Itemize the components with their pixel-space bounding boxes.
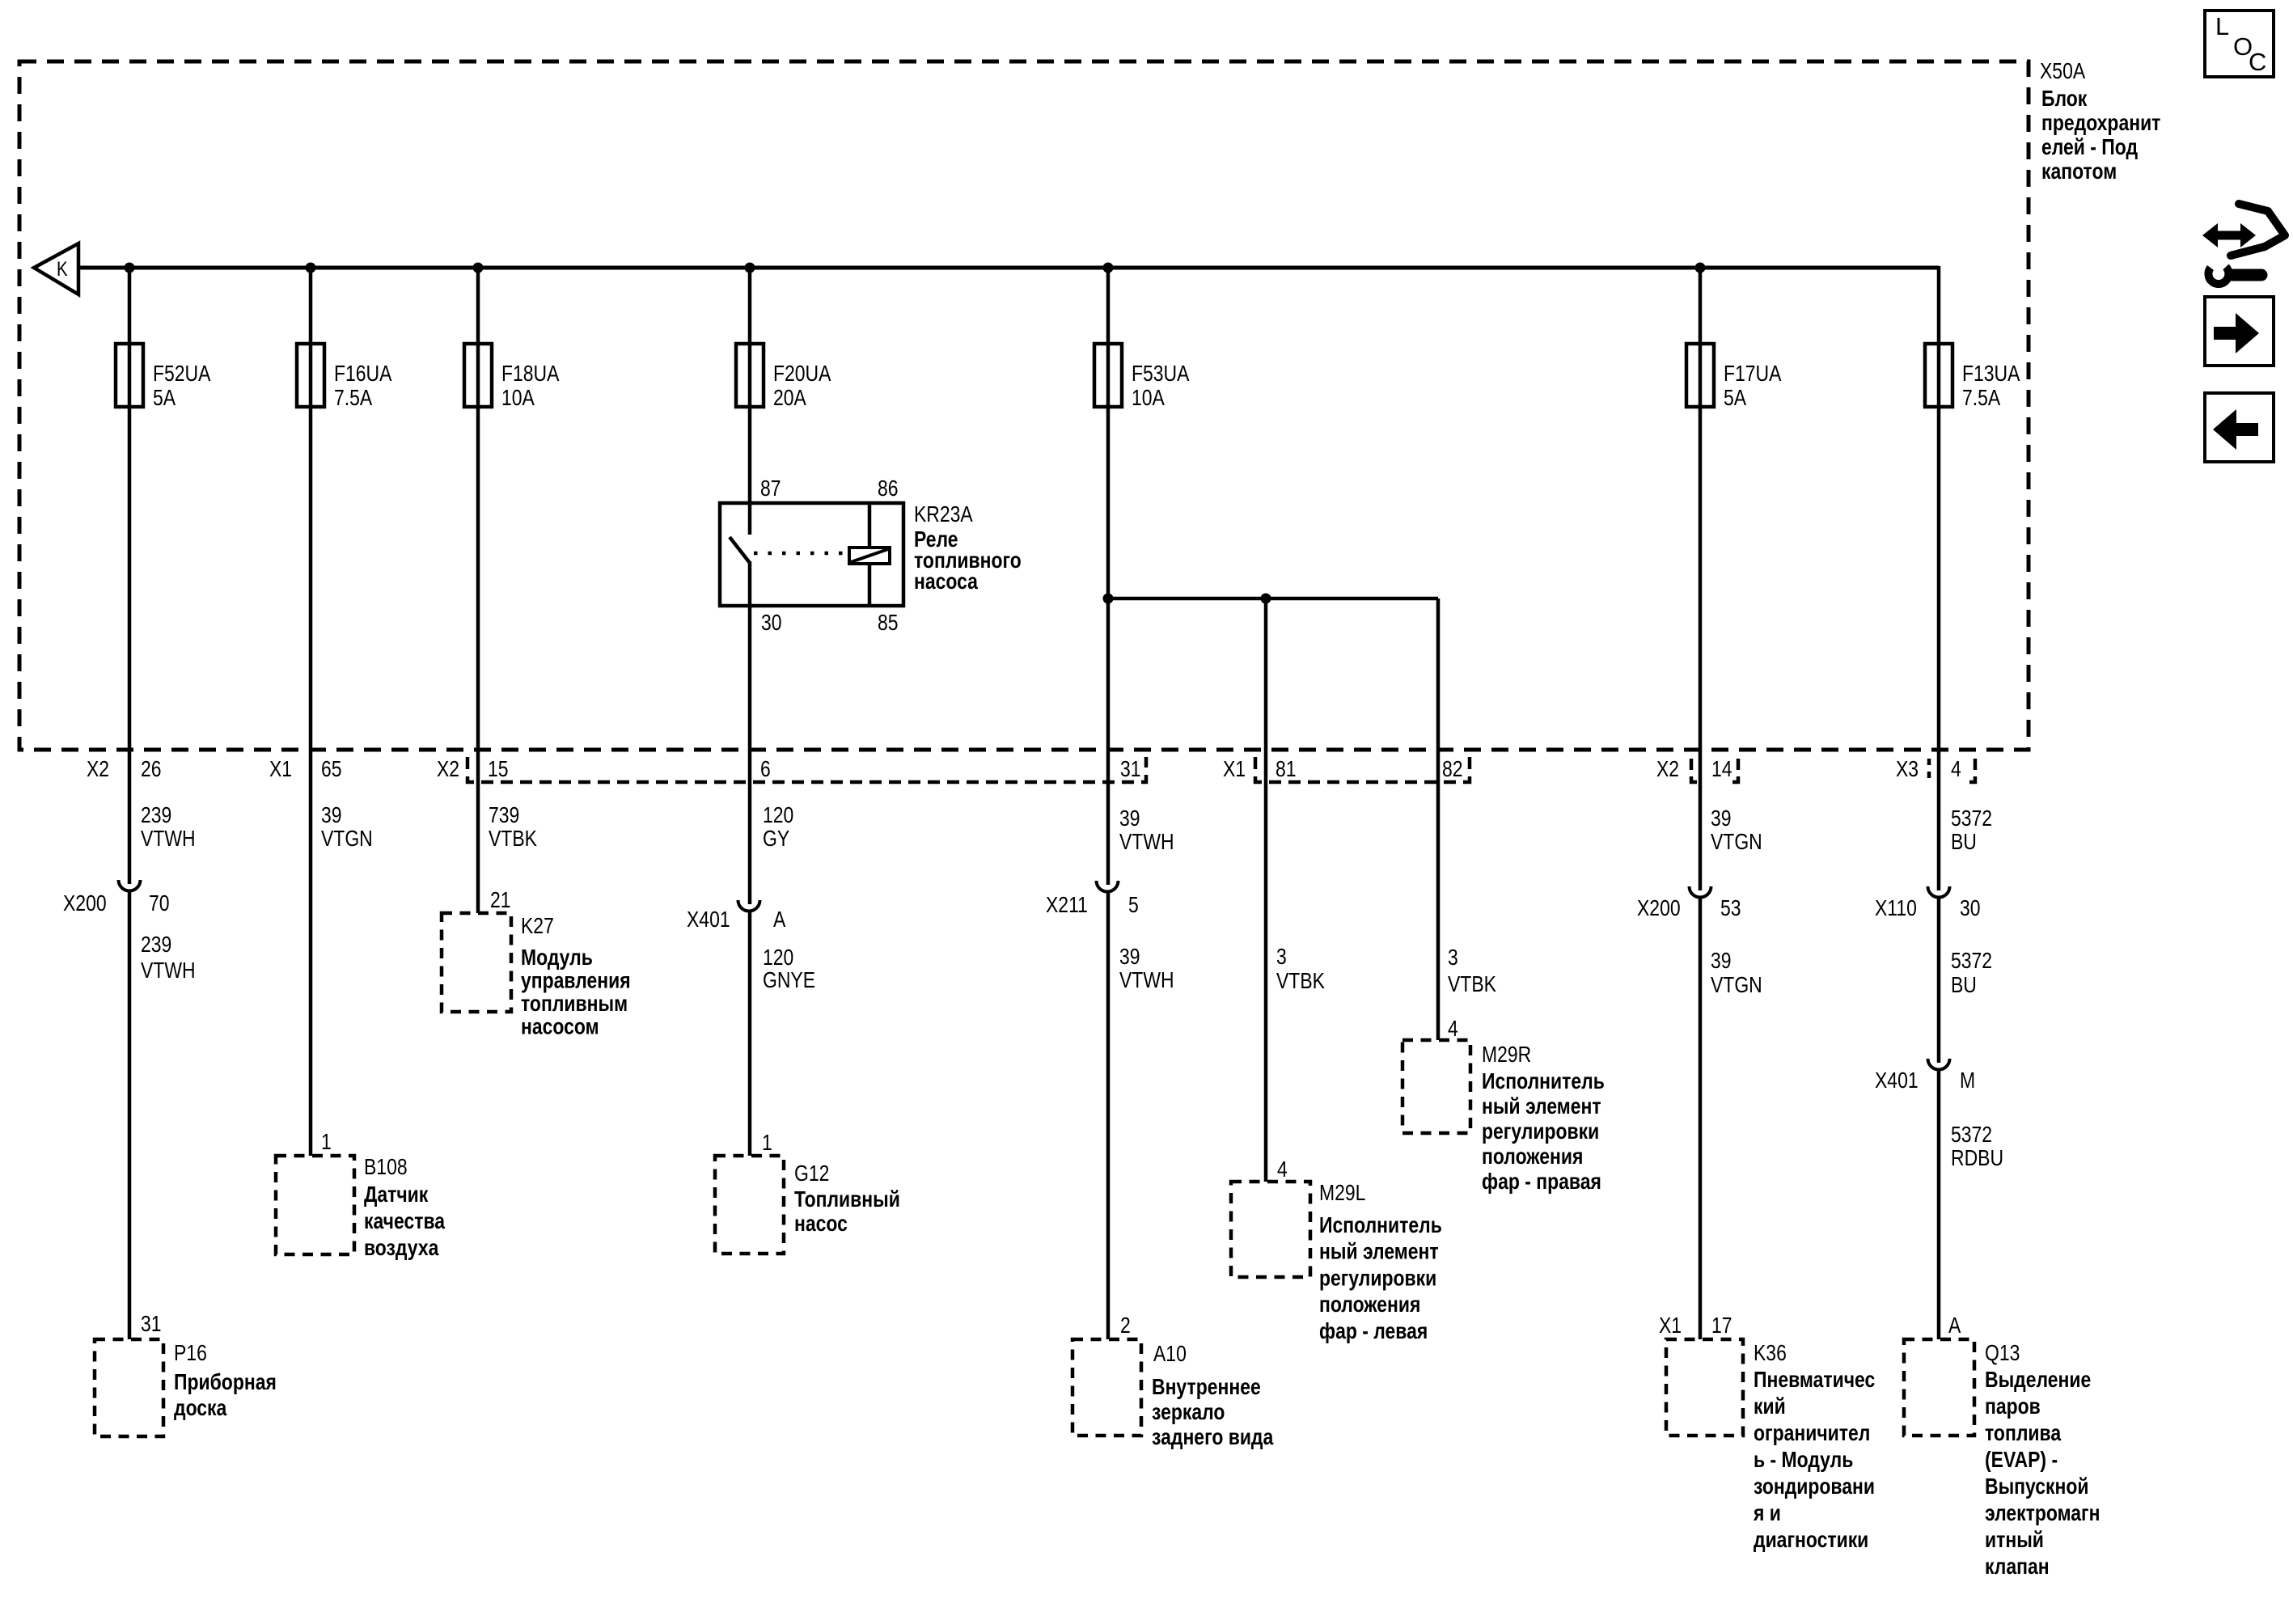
G12 name fuel pump <box>794 1187 900 1237</box>
arrow K circuit continuation <box>34 243 78 294</box>
svg-text:20A: 20A <box>773 386 807 411</box>
svg-text:87: 87 <box>760 476 781 501</box>
rerouted-circuit wrench icon <box>2202 204 2285 284</box>
svg-text:1: 1 <box>321 1130 332 1155</box>
svg-text:итный: итный <box>1985 1528 2044 1553</box>
svg-text:239: 239 <box>141 933 171 958</box>
svg-text:7.5A: 7.5A <box>1962 386 2001 411</box>
svg-text:5A: 5A <box>153 386 176 411</box>
wire label 39 VTWH below X211 <box>1119 945 1174 993</box>
svg-text:31: 31 <box>141 1312 162 1337</box>
svg-text:X200: X200 <box>63 891 107 916</box>
svg-text:Внутреннее: Внутреннее <box>1152 1375 1261 1400</box>
fuse F13UA <box>1925 344 1952 407</box>
svg-text:5: 5 <box>1128 893 1139 918</box>
svg-text:53: 53 <box>1720 896 1741 921</box>
wire F20UA branch to relay pin 87 <box>748 268 752 503</box>
svg-text:диагностики: диагностики <box>1754 1528 1868 1553</box>
component B108 box <box>276 1156 354 1254</box>
svg-text:елей - Под: елей - Под <box>2041 135 2138 160</box>
component Q13 box <box>1904 1339 1974 1436</box>
svg-text:Приборная: Приборная <box>174 1370 277 1395</box>
wire bus from arrow K to F13UA branch <box>78 266 1939 270</box>
svg-text:X1: X1 <box>1223 757 1246 782</box>
Q13 name EVAP emission vent solenoid valve <box>1985 1368 2100 1580</box>
svg-text:X2: X2 <box>1656 757 1679 782</box>
svg-text:управления: управления <box>521 968 631 993</box>
svg-text:39: 39 <box>1711 806 1732 831</box>
junction F53UA/branch <box>1103 594 1114 604</box>
svg-text:насос: насос <box>794 1212 848 1237</box>
wire F17UA branch down to X200-53 <box>1699 268 1703 890</box>
wire label 120 GNYE below X401 <box>763 945 815 993</box>
svg-text:Пневматичес: Пневматичес <box>1754 1368 1875 1393</box>
svg-text:клапан: клапан <box>1985 1554 2050 1580</box>
junction bus/F16UA <box>306 263 316 273</box>
svg-text:81: 81 <box>1276 757 1297 782</box>
svg-text:G12: G12 <box>794 1161 829 1186</box>
component G12 box <box>715 1156 784 1254</box>
wire label 3 VTBK left <box>1276 945 1325 994</box>
wire label 5372 RDBU below X401-M <box>1951 1123 2003 1171</box>
wire label 5372 BU below X110 <box>1951 949 1992 998</box>
svg-text:5A: 5A <box>1724 386 1747 411</box>
label F18UA 10A <box>501 362 560 411</box>
svg-text:BU: BU <box>1951 973 1977 998</box>
connector X211 pin 5 symbol <box>1097 881 1119 892</box>
relay KR23A box <box>720 503 903 606</box>
fuse F20UA <box>736 344 764 407</box>
svg-text:C: C <box>2249 48 2266 76</box>
svg-text:X50A: X50A <box>2040 59 2086 84</box>
fuse F18UA <box>464 344 492 407</box>
K27 name fuel pump control module <box>521 945 631 1039</box>
wire label 5372 BU <box>1951 806 1992 855</box>
svg-text:26: 26 <box>141 757 162 782</box>
label F53UA 10A <box>1132 362 1190 411</box>
svg-text:39: 39 <box>1119 945 1140 970</box>
svg-text:M29R: M29R <box>1482 1042 1531 1068</box>
svg-text:5372: 5372 <box>1951 949 1992 974</box>
wire label 39 VTGN right <box>1711 806 1762 855</box>
svg-text:F18UA: F18UA <box>501 362 560 387</box>
svg-text:F13UA: F13UA <box>1962 362 2020 387</box>
svg-text:85: 85 <box>878 611 899 636</box>
svg-text:X401: X401 <box>1875 1068 1919 1093</box>
svg-text:X211: X211 <box>1046 893 1088 918</box>
svg-text:VTWH: VTWH <box>141 827 196 852</box>
wire 239 VTWH down to P16 <box>128 891 132 1339</box>
svg-text:заднего вида: заднего вида <box>1152 1425 1274 1450</box>
svg-text:Выделение: Выделение <box>1985 1368 2091 1393</box>
svg-text:65: 65 <box>321 757 342 782</box>
svg-text:86: 86 <box>878 476 899 501</box>
wire label 239 VTWH <box>141 803 196 852</box>
svg-text:A: A <box>773 907 786 933</box>
svg-text:Блок: Блок <box>2041 87 2087 112</box>
X50A fuse block name <box>2041 87 2160 184</box>
svg-text:70: 70 <box>149 891 170 916</box>
svg-text:4: 4 <box>1448 1017 1458 1042</box>
svg-text:X1: X1 <box>1659 1313 1682 1339</box>
svg-text:82: 82 <box>1442 757 1463 782</box>
svg-text:Исполнитель: Исполнитель <box>1482 1069 1605 1094</box>
K36 name pneumatic suspension module <box>1753 1368 1875 1553</box>
svg-text:качества: качества <box>364 1209 446 1234</box>
connector X1 bracket pins 81-82 <box>1255 757 1470 782</box>
wire 39 VTGN down to K36 <box>1699 898 1703 1339</box>
svg-text:насосом: насосом <box>521 1014 599 1039</box>
svg-text:положения: положения <box>1319 1292 1420 1317</box>
component M29R box <box>1402 1040 1470 1133</box>
svg-text:1: 1 <box>762 1131 772 1156</box>
svg-text:4: 4 <box>1277 1157 1288 1182</box>
wire label 39 VTGN <box>321 803 373 852</box>
fuse block X50A dashed outline <box>19 61 2029 750</box>
fuse F17UA <box>1686 344 1714 407</box>
svg-text:6: 6 <box>760 757 771 782</box>
connector X200 pin 53 symbol <box>1690 886 1711 898</box>
junction bus/F18UA <box>473 263 484 273</box>
svg-text:зондировани: зондировани <box>1754 1474 1875 1499</box>
wire F16UA branch down to B108 <box>309 268 313 1156</box>
svg-text:BU: BU <box>1951 830 1977 855</box>
A10 name inside rear view mirror <box>1152 1375 1274 1450</box>
svg-text:239: 239 <box>141 803 171 828</box>
wire M29R drop <box>1436 598 1441 1040</box>
svg-text:3: 3 <box>1448 945 1458 971</box>
svg-text:VTGN: VTGN <box>321 827 373 852</box>
svg-text:кий: кий <box>1754 1394 1786 1419</box>
svg-text:A: A <box>1948 1313 1961 1339</box>
svg-text:21: 21 <box>490 888 511 913</box>
svg-text:B108: B108 <box>364 1155 408 1180</box>
relay KR23A name <box>914 527 1022 594</box>
backward arrow icon <box>2205 393 2274 462</box>
svg-text:5372: 5372 <box>1951 1123 1992 1148</box>
svg-text:14: 14 <box>1711 757 1732 782</box>
svg-text:положения: положения <box>1482 1144 1583 1169</box>
relay KR23A actuation dotted link <box>754 552 846 556</box>
svg-text:F20UA: F20UA <box>773 362 831 387</box>
svg-text:Исполнитель: Исполнитель <box>1319 1213 1442 1238</box>
svg-text:зеркало: зеркало <box>1152 1400 1225 1425</box>
svg-text:регулировки: регулировки <box>1482 1119 1599 1144</box>
fuse F52UA <box>116 344 143 407</box>
label F20UA 20A <box>773 362 831 411</box>
svg-text:топливным: топливным <box>521 992 628 1017</box>
svg-text:39: 39 <box>1119 806 1140 831</box>
wire F18UA branch down to K27 <box>476 268 480 913</box>
connector X401 pin A symbol <box>738 900 760 911</box>
svg-text:10A: 10A <box>501 386 535 411</box>
fuse F16UA <box>297 344 324 407</box>
svg-text:X110: X110 <box>1875 896 1917 921</box>
relay KR23A switch contact <box>730 503 750 606</box>
connector X200 pin 70 symbol <box>119 880 141 891</box>
label F16UA 7.5A <box>334 362 392 411</box>
svg-text:VTBK: VTBK <box>1448 972 1496 997</box>
svg-text:ный элемент: ный элемент <box>1482 1094 1601 1119</box>
svg-text:VTBK: VTBK <box>1276 969 1325 994</box>
svg-text:F17UA: F17UA <box>1724 362 1782 387</box>
svg-text:GNYE: GNYE <box>763 968 815 993</box>
svg-text:17: 17 <box>1711 1313 1732 1339</box>
svg-text:VTGN: VTGN <box>1711 830 1762 855</box>
svg-text:VTWH: VTWH <box>1119 830 1174 855</box>
svg-text:(EVAP) -: (EVAP) - <box>1985 1448 2058 1473</box>
connector X110 pin 30 symbol <box>1928 886 1950 898</box>
svg-text:VTGN: VTGN <box>1711 973 1762 998</box>
svg-text:F52UA: F52UA <box>153 362 211 387</box>
svg-text:электромагн: электромагн <box>1985 1501 2100 1526</box>
wire 39 VTWH down to A10 <box>1106 892 1111 1339</box>
svg-text:7.5A: 7.5A <box>334 386 373 411</box>
svg-text:VTWH: VTWH <box>1119 968 1174 993</box>
connector X2 bracket pins 15-6-31 <box>467 757 1146 782</box>
svg-text:предохранит: предохранит <box>2041 111 2160 136</box>
junction bus/F17UA <box>1695 263 1706 273</box>
svg-text:насоса: насоса <box>914 569 979 594</box>
label F17UA 5A <box>1724 362 1782 411</box>
wire 120 GNYE down to G12 <box>748 911 752 1156</box>
svg-text:K: K <box>57 257 68 280</box>
connector X3 bracket pin 4 <box>1929 759 1975 782</box>
svg-text:739: 739 <box>489 803 519 828</box>
wire relay pin30 down to X401-A <box>748 606 752 904</box>
svg-text:X401: X401 <box>687 907 730 933</box>
wire label 739 VTBK <box>489 803 537 852</box>
svg-text:X3: X3 <box>1896 757 1919 782</box>
relay KR23A coil <box>849 503 890 606</box>
component P16 box <box>95 1339 163 1436</box>
M29L name headlamp leveling actuator left <box>1319 1213 1442 1343</box>
svg-text:F16UA: F16UA <box>334 362 392 387</box>
svg-text:воздуха: воздуха <box>364 1236 439 1261</box>
wire label 39 VTGN below X200-53 <box>1711 949 1762 998</box>
label F52UA 5A <box>153 362 211 411</box>
component M29L box <box>1231 1182 1310 1277</box>
svg-text:фар - левая: фар - левая <box>1319 1319 1428 1344</box>
svg-text:10A: 10A <box>1132 386 1166 411</box>
svg-text:K36: K36 <box>1754 1341 1787 1366</box>
svg-text:3: 3 <box>1276 945 1287 970</box>
label F13UA 7.5A <box>1962 362 2020 411</box>
svg-text:Топливный: Топливный <box>794 1187 900 1212</box>
svg-text:X200: X200 <box>1637 896 1681 921</box>
svg-text:KR23A: KR23A <box>914 502 974 527</box>
svg-text:топлива: топлива <box>1985 1421 2062 1446</box>
component A10 box <box>1072 1339 1141 1436</box>
connector X2 bracket pin 14 <box>1691 759 1738 782</box>
wire 5372 RDBU down to Q13 <box>1937 1070 1941 1339</box>
svg-text:P16: P16 <box>174 1341 207 1366</box>
wire label 39 VTWH <box>1119 806 1174 855</box>
svg-text:ный элемент: ный элемент <box>1319 1240 1439 1265</box>
svg-text:30: 30 <box>1960 896 1981 921</box>
svg-text:31: 31 <box>1120 757 1141 782</box>
svg-text:F53UA: F53UA <box>1132 362 1190 387</box>
svg-text:Q13: Q13 <box>1985 1341 2020 1366</box>
B108 name air quality sensor <box>364 1182 446 1261</box>
svg-text:5372: 5372 <box>1951 806 1992 831</box>
P16 name instrument panel <box>174 1370 277 1421</box>
M29R name headlamp leveling actuator right <box>1482 1069 1605 1195</box>
junction bus/F52UA <box>125 263 135 273</box>
svg-text:Выпускной: Выпускной <box>1985 1474 2088 1499</box>
svg-text:я и: я и <box>1753 1501 1781 1526</box>
svg-text:Датчик: Датчик <box>364 1182 428 1207</box>
junction bus/F53UA <box>1103 263 1114 273</box>
svg-text:M29L: M29L <box>1319 1181 1365 1206</box>
svg-text:капотом: капотом <box>2041 159 2117 184</box>
svg-text:X1: X1 <box>269 757 292 782</box>
svg-text:30: 30 <box>761 611 782 636</box>
svg-text:X2: X2 <box>437 757 459 782</box>
svg-text:ограничител: ограничител <box>1754 1421 1870 1446</box>
wire F53UA branch down to X211 <box>1106 268 1111 885</box>
svg-text:A10: A10 <box>1153 1342 1187 1367</box>
svg-text:L: L <box>2215 12 2229 40</box>
svg-text:доска: доска <box>174 1396 227 1421</box>
forward arrow icon <box>2205 297 2274 366</box>
wire label 239 VTWH below X200 <box>141 933 196 983</box>
svg-text:фар - правая: фар - правая <box>1482 1169 1601 1195</box>
svg-text:VTBK: VTBK <box>489 827 537 852</box>
svg-text:2: 2 <box>1120 1313 1131 1339</box>
svg-text:39: 39 <box>1711 949 1732 974</box>
svg-text:X2: X2 <box>87 757 109 782</box>
component K36 box <box>1666 1339 1743 1436</box>
svg-text:15: 15 <box>488 757 509 782</box>
svg-text:M: M <box>1960 1068 1975 1093</box>
component K27 box <box>442 913 511 1012</box>
wire label 3 VTBK right <box>1448 945 1496 997</box>
wire F52UA branch down to X200 <box>128 268 132 884</box>
wire M29L drop <box>1264 598 1268 1182</box>
svg-text:K27: K27 <box>521 914 554 939</box>
svg-text:RDBU: RDBU <box>1951 1146 2003 1171</box>
svg-text:VTWH: VTWH <box>141 958 196 983</box>
svg-text:120: 120 <box>763 803 793 828</box>
svg-text:паров: паров <box>1985 1394 2041 1419</box>
junction bus/F20UA <box>745 263 755 273</box>
wire F13UA branch down to X110 <box>1937 266 1941 890</box>
svg-text:Модуль: Модуль <box>521 945 593 971</box>
svg-text:4: 4 <box>1951 757 1961 782</box>
wire 5372 BU down to X401 <box>1937 898 1941 1063</box>
LOC reference box icon <box>2205 11 2274 77</box>
svg-text:ь - Модуль: ь - Модуль <box>1754 1448 1853 1473</box>
wire branch from F53UA to headlamp actuators <box>1108 597 1438 601</box>
junction branch/M29L wire <box>1261 594 1271 604</box>
connector X401 pin M symbol <box>1928 1059 1950 1070</box>
svg-text:39: 39 <box>321 803 342 828</box>
wire label 120 GY <box>763 803 793 852</box>
svg-text:регулировки: регулировки <box>1319 1266 1436 1291</box>
svg-text:120: 120 <box>763 945 793 971</box>
svg-text:GY: GY <box>763 827 789 852</box>
fuse F53UA <box>1094 344 1122 407</box>
